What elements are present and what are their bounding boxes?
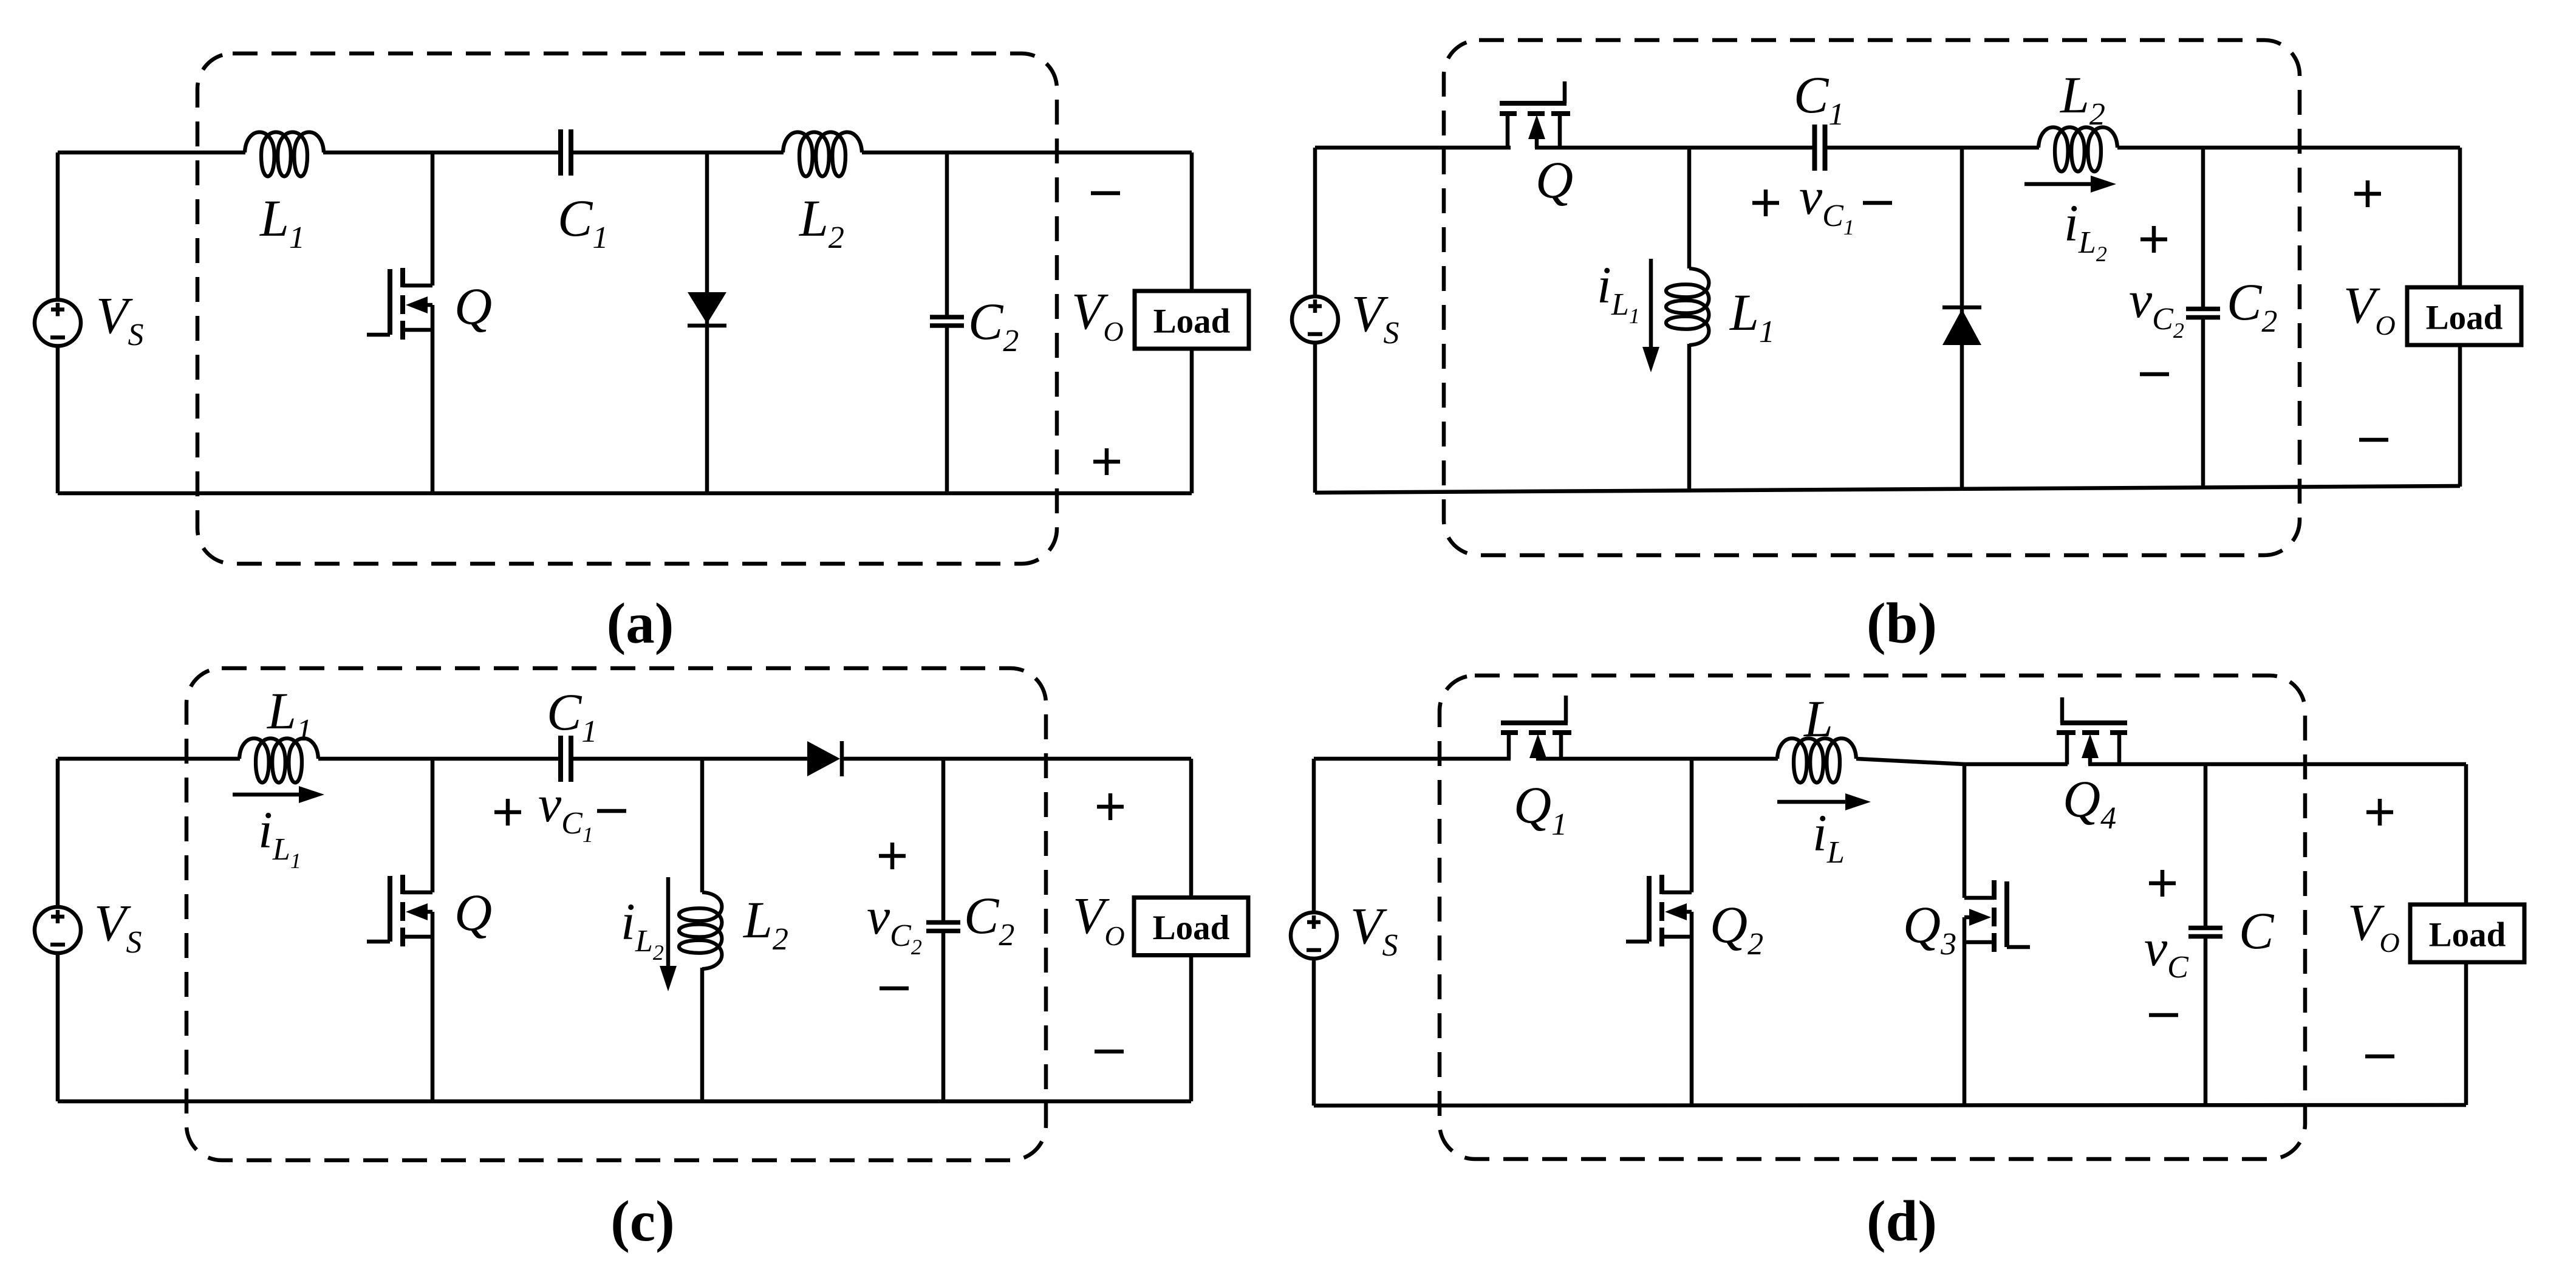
transistor Q4 (d) MOSFET <box>2117 735 2122 765</box>
wire (a) top rail: C1 to L2 <box>573 151 784 155</box>
wire (d) top rail: Q3 node to Q4 <box>1964 762 2068 767</box>
polarity + of vC (d) <box>2149 881 2176 886</box>
wire (d) top rail: L to Q3 node (slight slant) <box>1856 759 1964 764</box>
wire (b) right vertical upper <box>2458 148 2462 287</box>
capacitor C (d) output cap <box>2188 926 2222 931</box>
wire (d) top rail: source to Q1 <box>1314 757 1511 761</box>
wire (d) right vertical lower <box>2464 962 2468 1105</box>
current arrow iL1 (c) rightward <box>233 793 302 797</box>
current arrow iL1 (b) downward <box>1649 259 1653 351</box>
current arrow iL2 (c) downward <box>666 877 671 970</box>
wire (a) diode branch <box>705 152 709 493</box>
svg-text:Q: Q <box>454 277 492 335</box>
wire (a) bottom rail <box>58 491 1192 496</box>
wire (b) diode branch <box>1960 148 1964 490</box>
wire (c) right vertical upper <box>1189 759 1194 897</box>
wire (b) top rail: source to Q <box>1315 146 1511 150</box>
capacitor C2 (a) output cap <box>930 315 964 320</box>
inductor L2 (c) vertical branch wire <box>700 759 705 892</box>
circuit (b) Zeta converter: dashed converter boundary box <box>1444 40 2300 555</box>
wire (b) C2 branch lower <box>2201 320 2205 488</box>
voltage source VS (c) <box>35 907 81 953</box>
wire (c) left vertical from source to top rail <box>56 759 60 907</box>
wire (a) left vertical from source to top rail <box>56 152 60 300</box>
wire (a) left vertical from source to bottom rail <box>56 346 60 494</box>
wire (b) left vertical from source to top rail <box>1313 148 1317 296</box>
wire (a) top rail: L1 to C1 <box>323 151 558 155</box>
wire (d) top rail: Q4 to C node to output <box>2088 762 2466 767</box>
wire (d) left vertical from source to top rail <box>1312 759 1316 912</box>
inductor L1 (c) coil <box>239 739 318 783</box>
wire (c) top rail: diode to C2 node to output <box>842 757 1191 761</box>
svg-text:Load: Load <box>1153 909 1230 947</box>
output minus sign (d) <box>2365 1055 2394 1059</box>
output minus sign (c) <box>1095 1050 1124 1054</box>
wire (c) top rail: source to L1 <box>58 757 240 761</box>
svg-text:C: C <box>2239 901 2275 960</box>
wire (c) C2 branch lower <box>941 933 946 1101</box>
wire (c) C2 branch upper <box>941 759 946 920</box>
wire (b) top rail: L2 to C2 node to output <box>2117 146 2460 150</box>
inductor L2 (b) coil <box>2038 128 2117 172</box>
polarity + of vC2 (c) <box>879 854 906 858</box>
load box (d) <box>2410 905 2524 962</box>
polarity - of vC1 (c) <box>597 809 626 813</box>
wire (a) C2 branch upper <box>945 152 949 315</box>
svg-text:L: L <box>1803 689 1833 748</box>
polarity + of vC1 (c) <box>494 810 521 815</box>
output minus sign (b) <box>2359 438 2388 442</box>
capacitor C2 (c) output cap <box>926 920 960 925</box>
svg-text:(c): (c) <box>610 1189 674 1253</box>
wire (c) bottom rail <box>58 1100 1191 1104</box>
capacitor C1 (b) series in top rail <box>1812 125 1817 171</box>
capacitor C1 (c) series in top rail <box>558 736 563 782</box>
polarity - of vC1 (b) <box>1863 201 1892 205</box>
current arrow iL2 (b) rightward <box>2024 182 2094 186</box>
circuit (c) SEPIC converter: dashed converter boundary box <box>186 668 1046 1160</box>
inductor L2 (c) vertical coil <box>679 892 722 969</box>
wire (b) right vertical lower <box>2458 345 2462 487</box>
wire (d) right vertical upper <box>2464 764 2468 905</box>
wire (b) left vertical from source to bottom rail <box>1313 343 1317 493</box>
wire (d) C branch lower <box>2204 939 2208 1106</box>
polarity + of vC1 (b) <box>1752 201 1779 205</box>
load box (c) <box>1134 898 1248 956</box>
wire (a) top rail: source node to L1 <box>58 151 245 155</box>
svg-text:(a): (a) <box>607 591 674 655</box>
wire (c) right vertical lower <box>1189 956 1194 1101</box>
transistor Q (a) MOSFET switch <box>431 152 435 286</box>
svg-text:(d): (d) <box>1867 1189 1937 1253</box>
wire (c) top rail: L1 to C1 <box>318 757 558 761</box>
load box (a) <box>1135 291 1249 349</box>
wire (d) Q2 source to bottom rail <box>1690 912 1694 1106</box>
diode D (b) pointing up <box>1942 309 1981 345</box>
voltage source VS (a) <box>35 300 81 346</box>
output plus sign (b) <box>2354 192 2381 196</box>
wire (b) bottom rail <box>1315 486 2460 493</box>
inductor L (d) coil <box>1777 739 1856 783</box>
wire (a) right vertical upper <box>1190 152 1194 292</box>
wire (b) top rail: C1 to diode node to L2 <box>1827 146 2039 150</box>
wire (d) Q3 source to bottom rail <box>1963 917 1967 1106</box>
inductor L1 (a) coil <box>245 132 324 177</box>
transistor Q1 (d) MOSFET <box>1507 735 1511 759</box>
svg-text:Load: Load <box>2426 299 2503 337</box>
svg-text:Load: Load <box>1153 303 1231 341</box>
wire (c) Q source to bottom rail <box>431 912 435 1101</box>
svg-text:Q: Q <box>454 883 492 942</box>
wire (a) C2 branch lower <box>945 328 949 494</box>
circuit (d) four-switch buck-boost: dashed converter boundary box <box>1440 675 2305 1159</box>
current arrow iL (d) rightward <box>1777 800 1849 804</box>
diode D (c) pointing right <box>807 741 840 776</box>
load box (b) <box>2407 287 2521 345</box>
wire (c) left vertical from source to bottom rail <box>56 953 60 1101</box>
wire (a) Q source to bottom rail <box>431 305 435 493</box>
wire (d) C branch upper <box>2204 764 2208 926</box>
svg-text:Q: Q <box>1536 151 1573 209</box>
inductor L2 (a) coil <box>783 132 862 177</box>
output plus sign (c) <box>1097 805 1124 809</box>
transistor Q (c) MOSFET switch <box>431 759 435 892</box>
polarity - of vC2 (b) <box>2140 372 2169 377</box>
wire (c) top rail: C1 to L2 node to diode <box>573 757 808 761</box>
svg-text:Load: Load <box>2429 916 2506 954</box>
transistor Q2 (d) MOSFET low-side <box>1690 759 1694 892</box>
wire (a) top rail: L2 to output node <box>862 151 1192 155</box>
svg-text:(b): (b) <box>1867 591 1937 655</box>
capacitor C2 (b) output cap <box>2186 307 2220 312</box>
transistor Q3 (d) MOSFET low-side mirrored <box>1963 764 1967 898</box>
voltage source VS (d) <box>1291 912 1337 959</box>
output minus sign (a) <box>1091 191 1120 196</box>
voltage source VS (b) <box>1292 296 1338 343</box>
wire (b) C2 branch upper <box>2201 148 2205 307</box>
wire (a) right vertical lower <box>1190 348 1194 493</box>
polarity - of vC (d) <box>2149 1013 2178 1018</box>
wire (b) top rail: Q to L1 node and C1 <box>1535 146 1813 150</box>
wire (b) L1 coil to bottom rail <box>1687 344 1692 490</box>
output plus sign (d) <box>2366 810 2393 815</box>
inductor L1 (b) vertical coil branch wire <box>1687 148 1692 268</box>
capacitor C1 (a) series in top rail <box>558 129 563 176</box>
wire (d) top rail: Q1 to Q2 node to L <box>1536 757 1778 761</box>
output plus sign (a) <box>1093 460 1120 464</box>
transistor Q (b) MOSFET high-side switch <box>1506 116 1510 148</box>
polarity + of vC2 (b) <box>2140 238 2167 242</box>
wire (d) bottom rail <box>1314 1105 2466 1106</box>
circuit (a) Cuk converter: dashed converter boundary box <box>197 53 1057 564</box>
polarity - of vC2 (c) <box>880 987 909 991</box>
wire (c) L2 coil to bottom rail <box>700 968 705 1101</box>
wire (d) left vertical from source to bottom rail <box>1312 959 1316 1106</box>
inductor L1 (b) vertical coil <box>1666 268 1709 345</box>
diode D (a) pointing down <box>688 292 726 324</box>
